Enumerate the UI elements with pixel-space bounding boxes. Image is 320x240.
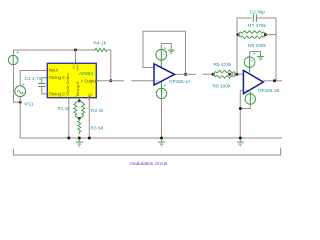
wire: feedback left rail xyxy=(237,18,252,74)
wire: IC output to gap xyxy=(96,80,124,82)
svg-text:C2 39p: C2 39p xyxy=(250,9,266,15)
node: bus dot under op-amp B xyxy=(239,137,242,140)
node: R3 bus dot xyxy=(78,137,81,140)
svg-text:C1 4.7n: C1 4.7n xyxy=(25,76,42,82)
node: bus dot left xyxy=(67,137,70,140)
battery V+ of op-amp A xyxy=(161,44,171,50)
node: R7R8 right dot xyxy=(264,33,267,36)
svg-text:+: + xyxy=(156,79,159,84)
node: rail junction dot xyxy=(236,73,239,76)
op-amp U1 AD654 xyxy=(47,63,96,97)
svg-text:R8 100k: R8 100k xyxy=(248,43,266,49)
ground below R3 xyxy=(76,139,83,146)
svg-text:+: + xyxy=(16,50,19,56)
svg-text:Clock Collec: Clock Collec xyxy=(65,73,70,95)
wire: op-amp A output xyxy=(175,73,196,75)
wire: op-amp B + input to ground chain xyxy=(240,90,243,138)
node: Vcc tap dot xyxy=(74,49,77,52)
wire: op-amp B output xyxy=(263,80,282,82)
svg-text:OP482-1B: OP482-1B xyxy=(258,88,279,93)
svg-text:Timing C: Timing C xyxy=(49,91,66,96)
svg-text:+: + xyxy=(245,88,248,93)
wire: feedback loop of op-amp A xyxy=(143,31,186,74)
svg-text:+: + xyxy=(253,51,256,57)
wire: to op-amp B inverting input xyxy=(230,73,244,75)
node: bus dot right of R3 xyxy=(88,137,91,140)
ground of op-amp B V+ xyxy=(257,57,264,60)
svg-text:OP482-1A: OP482-1A xyxy=(169,79,191,84)
battery V- of op-amp B xyxy=(249,92,251,94)
node: V1/VG1 junction dot xyxy=(19,101,22,104)
node: feedback/output dot xyxy=(184,73,187,76)
battery V- of op-amp A xyxy=(161,82,163,88)
generator VG1 xyxy=(15,86,26,97)
wire: gap resume to op-amp A input xyxy=(131,80,154,82)
svg-text:VG1: VG1 xyxy=(24,102,34,108)
ground under op-amp A xyxy=(158,139,165,146)
svg-text:Timing C: Timing C xyxy=(49,75,66,80)
node: R7R8 left dot xyxy=(237,33,240,36)
ground of op-amp A V+ xyxy=(168,50,175,53)
node: R1R2 bottom junction xyxy=(78,117,81,120)
svg-text:Input: Input xyxy=(49,68,59,73)
svg-text:R5 473k: R5 473k xyxy=(214,62,232,68)
svg-text:Vcc: Vcc xyxy=(71,62,76,69)
node: R4/output junction dot xyxy=(109,79,112,82)
wire: Vcc pin down to IC xyxy=(75,50,77,63)
node: join dot xyxy=(239,107,242,110)
pin stubs of U1 xyxy=(46,70,48,72)
wire: R4 right lead down to output line xyxy=(107,50,111,81)
ground under op-amp B xyxy=(237,139,244,146)
node: R5R6 right dot xyxy=(228,73,231,76)
svg-text:AD654: AD654 xyxy=(79,71,93,76)
wire: V1 bottom down to VG1 node xyxy=(14,65,21,102)
op-amp U3 OP482-1B xyxy=(243,70,263,93)
pin number marks (orange) xyxy=(77,65,79,71)
wire: VG1 bottom to ground bus xyxy=(20,97,282,138)
wire: top rail from V1 to R4 xyxy=(14,50,96,65)
svg-text:R3 68: R3 68 xyxy=(91,126,104,132)
wire: battery B- down and left xyxy=(240,104,250,108)
wire: op-amp A V- battery to bus xyxy=(161,99,163,138)
battery V+ of op-amp B xyxy=(250,52,261,58)
wire: VG1 top to IC Input pin xyxy=(20,71,47,86)
svg-text:R6 100k: R6 100k xyxy=(213,83,231,89)
svg-text:+: + xyxy=(22,82,25,88)
svg-text:R7 470k: R7 470k xyxy=(248,23,266,29)
wire: long bottom return wire xyxy=(13,148,280,155)
wire: C2 right lead and right rail xyxy=(256,18,276,81)
node: R5R6 left dot xyxy=(212,73,215,76)
svg-text:R1 1k: R1 1k xyxy=(58,106,71,111)
svg-text:Timing E: Timing E xyxy=(75,81,80,97)
svg-text:R4 1k: R4 1k xyxy=(94,40,107,46)
node: output/rail dot xyxy=(273,79,276,82)
svg-text:R2 1k: R2 1k xyxy=(91,108,104,114)
wire: stage 2 input lead xyxy=(203,73,214,75)
svg-text:modulation circuit: modulation circuit xyxy=(130,161,168,167)
node: bus dot under op-amp A xyxy=(160,137,163,140)
op-amp U2 OP482-1A xyxy=(154,64,175,85)
wire: IC left bottom pin to bus xyxy=(68,98,70,138)
svg-text:c Output: c Output xyxy=(81,79,98,84)
wire: R7R8 to right rail xyxy=(266,34,277,36)
voltage source V1 xyxy=(8,55,18,65)
wire: IC right bottom pin to bus xyxy=(88,98,90,138)
